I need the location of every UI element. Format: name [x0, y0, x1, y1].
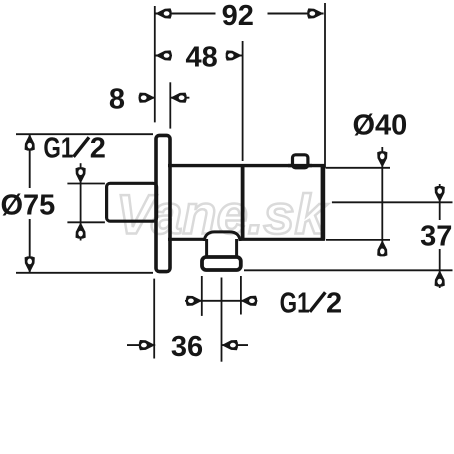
dimension 8 left tail: [139, 97, 156, 99]
dimension 92 line: [155, 13, 215, 15]
O40 dim vertical line: [381, 147, 383, 256]
axis ext line right (37 top): [332, 201, 453, 203]
O40 ext top: [326, 167, 390, 169]
svg-text:Vane.sk: Vane.sk: [116, 183, 328, 246]
arrow O75 top: [25, 134, 35, 150]
slash G1/2 top: [74, 137, 90, 157]
arrow 8 right: [170, 93, 186, 103]
arrow O75 bottom: [25, 256, 35, 272]
body top edge over knob base: [288, 164, 312, 167]
body divider joint: [241, 164, 245, 240]
arrow 36 right: [222, 340, 238, 350]
G1/2 bottom ext left: [201, 276, 203, 316]
svg-text:G1: G1: [43, 132, 73, 164]
body right end cap: [321, 164, 326, 241]
inlet spigot G1/2 left: [107, 183, 157, 221]
dimension 48 line: [155, 55, 172, 57]
36 dim left tail: [127, 344, 155, 346]
arrow 92 right: [307, 8, 323, 18]
extension line x242.5 (48): [242, 41, 244, 161]
extension line x170 (8): [169, 82, 171, 128]
svg-text:8: 8: [109, 84, 125, 116]
spout neck dome: [204, 232, 240, 241]
arrow G1/2 bottom right: [241, 296, 257, 306]
arrow 36 left: [139, 340, 155, 350]
arrow 8 left: [139, 93, 155, 103]
O40 ext bottom: [326, 239, 390, 241]
arrow 37 top: [435, 186, 445, 202]
spout neck left side: [205, 239, 208, 257]
svg-text:G1: G1: [280, 287, 310, 319]
spigot ext top: [67, 183, 105, 185]
arrow spigot bottom: [76, 222, 86, 238]
spout neck right side: [235, 239, 238, 257]
arrow G1/2 bottom left: [186, 296, 202, 306]
svg-text:37: 37: [420, 221, 452, 253]
body bottom edge right segment: [240, 238, 325, 241]
spigot dim vertical line: [80, 163, 82, 240]
knob on body top: [293, 155, 308, 168]
arrow O40 bottom: [377, 240, 387, 256]
ext line x154 lower (36 left): [153, 279, 155, 359]
slash G1/2 bottom: [310, 292, 326, 312]
svg-text:48: 48: [185, 42, 217, 74]
spout center ext line: [221, 278, 223, 362]
svg-text:36: 36: [171, 331, 203, 363]
arrow 92 left: [155, 8, 171, 18]
dimension O75 line: [29, 134, 31, 188]
extension line left x155: [154, 6, 156, 122]
37 dim vertical line: [439, 184, 441, 220]
ext line flange top left: [16, 133, 153, 135]
dimension 8 right tail: [170, 97, 189, 99]
spigot ext bottom: [67, 221, 105, 223]
nut bottom ext line (37 bottom): [244, 269, 453, 271]
arrow 37 bottom: [435, 270, 445, 286]
arrow O40 top: [377, 151, 387, 167]
G1/2 bottom dim line: [185, 300, 257, 302]
arrow spigot top: [76, 167, 86, 183]
36 dim right tail: [222, 344, 248, 346]
G1/2 bottom ext right: [240, 276, 242, 315]
flange (wall plate): [156, 135, 170, 271]
outlet nut G1/2 bottom: [202, 257, 241, 270]
arrow 48 left: [155, 50, 171, 60]
svg-text:92: 92: [222, 0, 254, 32]
svg-text:2: 2: [326, 287, 342, 319]
body bottom edge left segment: [168, 238, 205, 241]
ext line flange bottom left: [16, 272, 153, 274]
svg-text:Ø75: Ø75: [1, 190, 56, 222]
svg-text:Ø40: Ø40: [353, 109, 408, 141]
body top edge: [168, 164, 325, 167]
arrow 48 right: [226, 50, 242, 60]
extension line right x325 (92): [324, 3, 326, 168]
svg-text:2: 2: [90, 132, 106, 164]
